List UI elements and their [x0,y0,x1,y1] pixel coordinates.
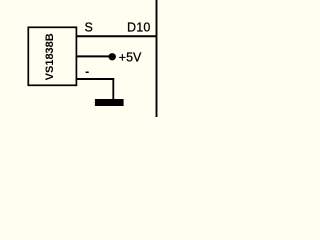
wire vertical bus at right (D10 column) [156,0,158,117]
IR receiver U1 body [28,27,76,85]
wire net S/D10 (pin 1 OUT to D10) [76,35,157,37]
wire pin 2 VCC [76,55,109,57]
wire pin 3 GND vertical [112,78,114,99]
svg-text:S: S [85,20,93,34]
wire pin 3 GND horizontal [76,78,114,80]
ground bar [95,99,124,106]
junction dot +5V node [109,53,116,60]
svg-text:+5V: +5V [119,50,142,64]
svg-text:D10: D10 [127,21,151,35]
svg-text:VS1838B: VS1838B [44,33,56,80]
pin 3 label minus [86,72,89,74]
